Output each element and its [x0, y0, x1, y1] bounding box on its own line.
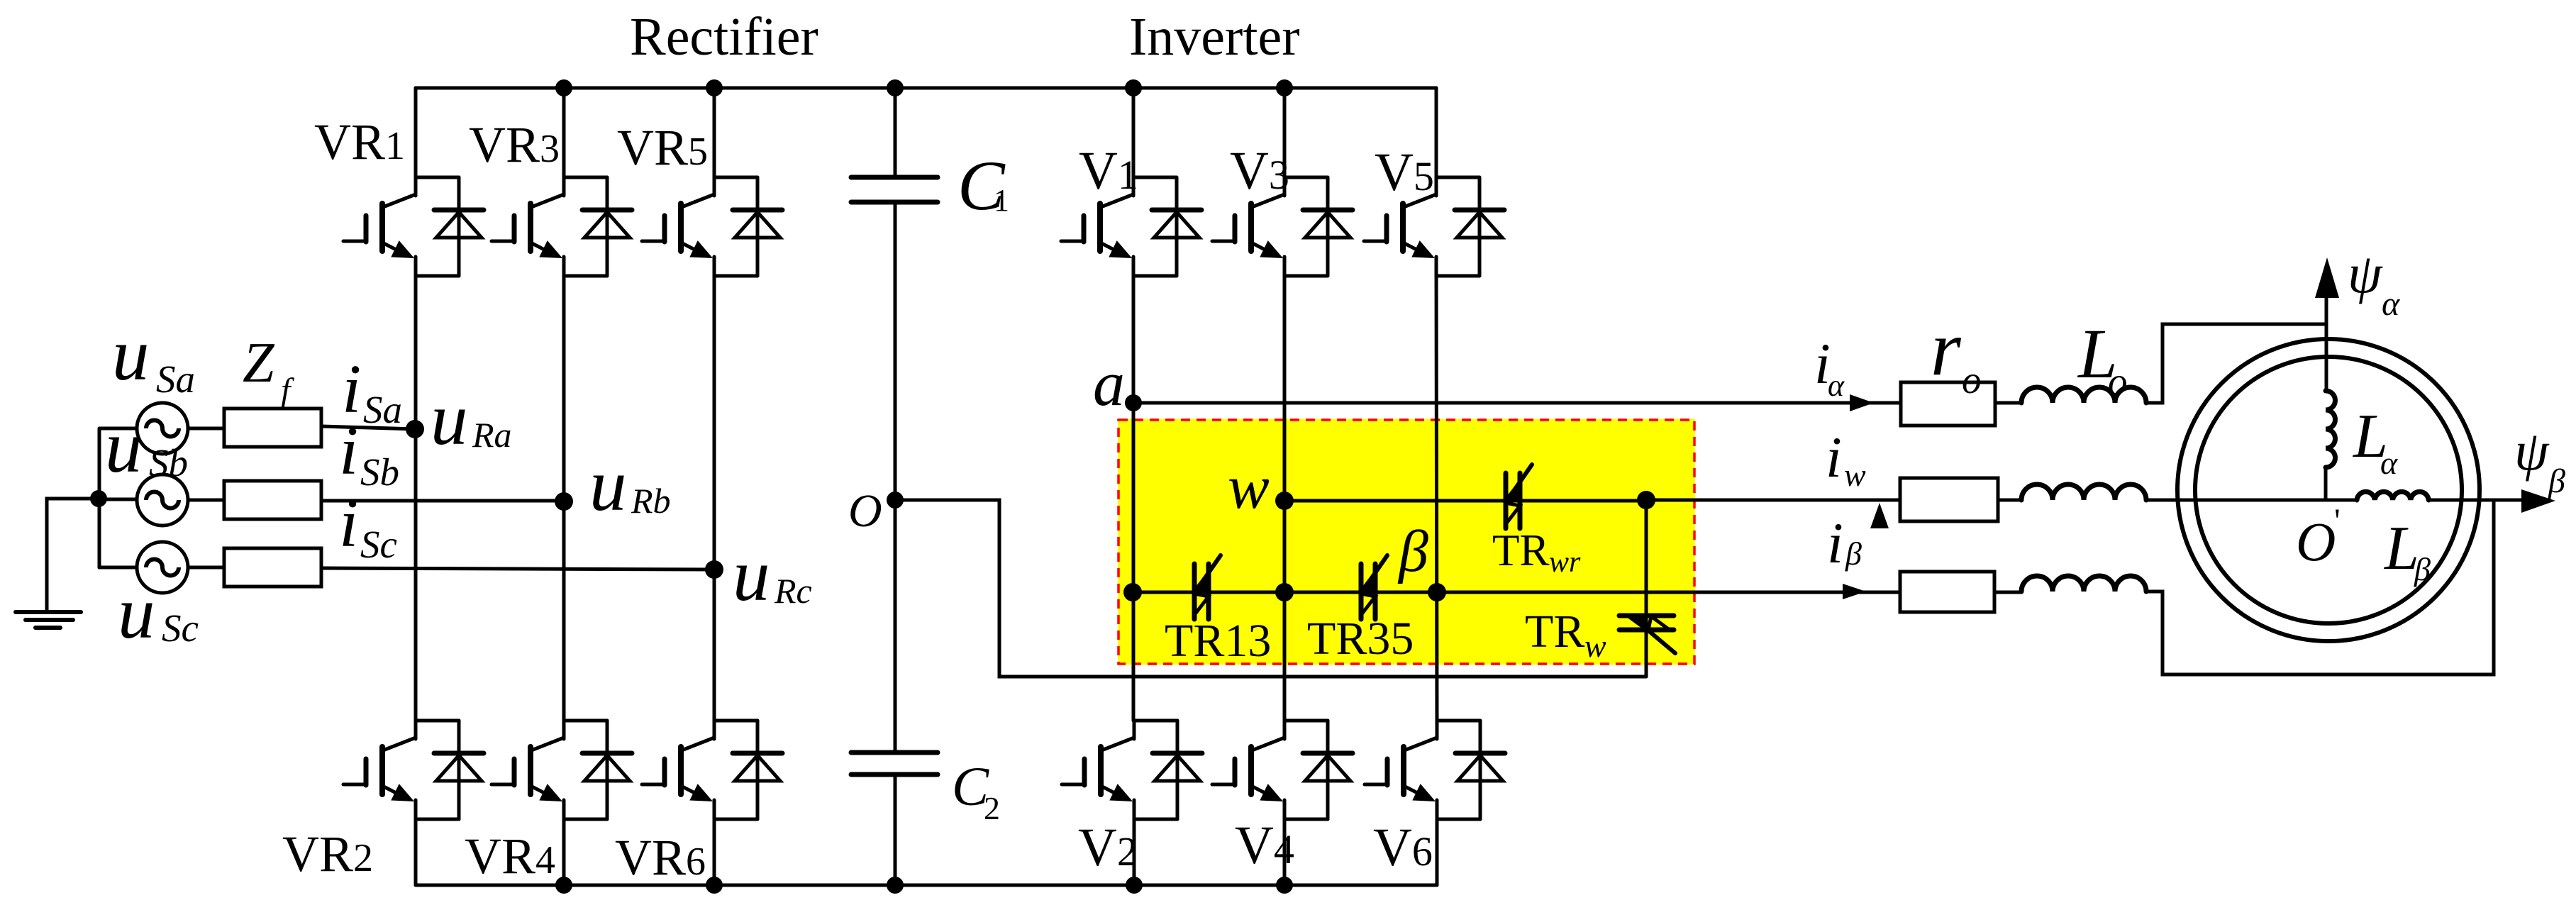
svg-text:i: i	[339, 485, 358, 562]
svg-text:O: O	[2296, 511, 2336, 572]
motor inner circle	[2195, 357, 2462, 623]
wire VR6 leg to bottom bus	[713, 819, 716, 885]
wire VR4 leg to bottom bus	[562, 819, 566, 885]
wire iSa from Zf box to node uRa	[321, 426, 415, 429]
node dot beta line left	[1123, 583, 1142, 601]
arrow psi-beta	[2521, 489, 2555, 513]
wire top DC bus	[416, 87, 1436, 90]
svg-text:u: u	[589, 443, 627, 526]
svg-text:β: β	[1845, 535, 1862, 572]
wire psi-beta axis out of motor	[2428, 499, 2525, 502]
wire node O to C2 top plate	[894, 500, 897, 753]
red dashed border of highlighted region	[1118, 420, 1694, 664]
IGBT VR2	[343, 721, 484, 820]
svg-text:1: 1	[994, 183, 1009, 218]
node dot uRc	[705, 560, 723, 579]
wire iSc from Zf box to node uRc	[321, 568, 714, 570]
inductor L-beta	[2357, 492, 2428, 500]
svg-text:u: u	[118, 571, 155, 654]
AC source uSa	[137, 403, 188, 454]
node dot a	[1125, 394, 1142, 411]
wire rectifier phase-a leg VR1 to VR2	[414, 257, 418, 721]
arrow i-w (upward tick below line)	[1870, 503, 1889, 528]
arrow i-beta	[1843, 584, 1866, 599]
wire L-alpha to motor centre line	[2324, 467, 2328, 500]
wire VR5 leg from top bus	[713, 88, 716, 177]
triac TR35	[1361, 555, 1387, 619]
svg-text:Z: Z	[243, 332, 275, 394]
node dot w	[1275, 492, 1294, 510]
wire V6 leg to bottom bus	[1436, 819, 1439, 885]
svg-text:ψ: ψ	[2514, 420, 2550, 482]
svg-text:TR: TR	[1492, 526, 1550, 575]
IGBT V3	[1212, 177, 1353, 277]
wire phase a source stub	[100, 427, 137, 431]
node dot w-line TRw branch	[1637, 491, 1655, 509]
svg-text:β: β	[2548, 462, 2565, 500]
wire node O elbow to TRw bottom	[895, 500, 1646, 677]
wire phase b source stub	[99, 498, 137, 501]
wire C2 bottom plate to bottom bus	[894, 774, 897, 885]
svg-text:w: w	[1228, 453, 1270, 522]
wire C1 bottom plate to node O	[894, 202, 897, 500]
svg-text:u: u	[733, 533, 770, 616]
wire w line from TRw node to resistor	[1646, 499, 1900, 502]
IGBT VR6	[642, 721, 782, 820]
motor outer circle	[2177, 339, 2480, 641]
svg-text:u: u	[105, 405, 143, 488]
impedance Zf box phase b	[224, 481, 321, 519]
svg-text:2: 2	[984, 790, 1000, 826]
wire phase a source to Zf box	[188, 427, 224, 431]
svg-text:Sc: Sc	[162, 606, 199, 650]
svg-text:α: α	[2382, 285, 2400, 323]
capacitor C1	[851, 177, 938, 202]
svg-text:o: o	[1962, 358, 1982, 401]
IGBT V5	[1364, 177, 1504, 277]
wire VR3 leg from top bus	[562, 88, 566, 177]
node dot beta	[1428, 583, 1446, 601]
inductor beta row	[2021, 576, 2146, 592]
wire VR1 leg from top bus	[414, 88, 418, 177]
node dot top bus V3	[1276, 79, 1293, 96]
wire inverter leg V3 to V4 through node w	[1283, 257, 1287, 721]
svg-text:a: a	[1093, 349, 1125, 419]
wire V1 leg from top bus	[1132, 88, 1136, 177]
svg-text:u: u	[112, 313, 150, 396]
IGBT V1	[1061, 177, 1201, 277]
svg-text:Rectifier: Rectifier	[630, 7, 818, 67]
wire w line into motor to L-beta	[2146, 499, 2357, 502]
node dot beta line V3 leg	[1275, 583, 1294, 601]
inductor L-alpha	[2326, 391, 2336, 467]
inductor w row	[2021, 484, 2146, 500]
AC source uSc	[137, 542, 188, 593]
impedance Zf box phase c	[224, 548, 321, 587]
wire phase b source to Zf box	[188, 499, 224, 502]
triac TRwr	[1506, 465, 1532, 528]
node dot bottom bus VR6	[706, 877, 723, 894]
wire C1 stem from top bus	[894, 88, 897, 177]
wire i-alpha resistor to inductor Lo	[1995, 401, 2021, 405]
wire V5 leg from top bus	[1435, 88, 1438, 177]
wire V4 leg to bottom bus	[1283, 819, 1287, 885]
highlighted switch region (yellow)	[1118, 419, 1695, 665]
svg-text:Sb: Sb	[149, 441, 188, 484]
node dot bottom bus V4	[1276, 877, 1293, 894]
svg-text:i: i	[1827, 511, 1843, 575]
node dot O	[887, 492, 904, 509]
wire w resistor to inductor	[1998, 499, 2021, 502]
svg-text:Sc: Sc	[360, 523, 397, 566]
IGBT VR5	[642, 177, 782, 277]
wire ground branch	[47, 499, 99, 611]
AC source uSb	[137, 474, 188, 526]
svg-text:Rb: Rb	[631, 481, 671, 521]
svg-text:Inverter: Inverter	[1129, 7, 1300, 67]
wire VR2 leg to bottom bus	[414, 819, 418, 885]
svg-text:': '	[2334, 502, 2341, 540]
node dot uRa	[406, 420, 424, 438]
svg-text:o: o	[2108, 360, 2128, 403]
capacitor C2	[851, 753, 938, 774]
svg-text:TR: TR	[1525, 606, 1584, 657]
svg-text:β: β	[2414, 551, 2431, 587]
svg-text:O: O	[848, 485, 882, 537]
svg-text:α: α	[2380, 445, 2398, 481]
IGBT VR1	[343, 177, 484, 277]
resistor w-row box	[1900, 478, 1998, 521]
wire inverter leg V1 to V2 through node a	[1132, 257, 1136, 721]
resistor ro box	[1901, 382, 1995, 426]
IGBT V4	[1212, 721, 1353, 820]
impedance Zf box phase a	[224, 409, 321, 447]
svg-text:α: α	[1828, 368, 1845, 403]
svg-text:wr: wr	[1549, 546, 1581, 579]
svg-text:Sa: Sa	[156, 357, 195, 401]
node dot top bus VR5	[706, 79, 723, 96]
inductor Lo	[2021, 387, 2146, 403]
svg-text:Ra: Ra	[472, 415, 512, 455]
svg-text:Sb: Sb	[360, 450, 399, 494]
IGBT V6	[1365, 721, 1505, 820]
node dot source common	[90, 490, 107, 507]
wire rectifier phase-c leg VR5 to VR6	[713, 257, 716, 721]
wire source common vertical	[98, 428, 101, 567]
wire TRw vertical branch from w-line node	[1645, 500, 1648, 677]
wire beta line from inverter leg to resistor	[1133, 591, 1900, 594]
svg-text:TR35: TR35	[1307, 613, 1414, 665]
ground symbol	[16, 612, 81, 628]
svg-text:w: w	[1844, 457, 1866, 493]
wire beta row return loop to psi-beta line	[2146, 501, 2494, 674]
IGBT VR4	[492, 721, 632, 820]
svg-text:u: u	[431, 377, 468, 460]
wire i-alpha line from node a to resistor	[1133, 401, 1901, 405]
node dot uRb	[555, 492, 573, 511]
wire phase c source to Zf box	[188, 566, 224, 570]
arrow i-alpha	[1850, 394, 1874, 411]
svg-text:Rc: Rc	[774, 571, 812, 611]
svg-text:TR13: TR13	[1165, 615, 1271, 667]
svg-text:i: i	[339, 413, 358, 489]
node dot top bus C1	[887, 79, 904, 96]
wire w line from node w to TRw node	[1284, 499, 1646, 503]
node dot bottom bus VR4	[555, 877, 572, 894]
wire inverter leg V5 to V6 through node beta	[1436, 257, 1437, 721]
svg-text:ψ: ψ	[2348, 243, 2383, 304]
arrow psi-alpha	[2315, 257, 2339, 298]
svg-text:r: r	[1931, 305, 1962, 392]
node dot bottom bus C2	[887, 877, 904, 894]
wire Lo to psi-alpha axis	[2146, 324, 2326, 403]
resistor beta-row box	[1900, 572, 1994, 612]
wire psi-alpha axis vertical	[2325, 294, 2328, 391]
wire beta resistor to inductor	[1994, 591, 2021, 594]
wire bottom DC bus	[416, 884, 1437, 887]
IGBT V2	[1062, 721, 1202, 820]
node dot top bus V1	[1125, 79, 1142, 96]
svg-text:β: β	[1397, 518, 1428, 584]
svg-text:Sa: Sa	[363, 388, 402, 431]
wire rectifier phase-b leg VR3 to VR4	[562, 257, 566, 721]
wire iSb from Zf box to node uRb	[321, 499, 564, 503]
IGBT VR3	[492, 177, 632, 277]
triac TRw	[1619, 616, 1675, 653]
triac TR13	[1194, 555, 1221, 619]
svg-text:w: w	[1584, 628, 1606, 664]
wire V2 leg to bottom bus	[1133, 819, 1136, 885]
svg-text:i: i	[1826, 425, 1842, 489]
node dot bottom bus V2	[1126, 877, 1143, 894]
wire V3 leg from top bus	[1283, 88, 1287, 177]
node dot top bus VR3	[555, 79, 572, 96]
wire phase c source stub	[99, 566, 137, 570]
